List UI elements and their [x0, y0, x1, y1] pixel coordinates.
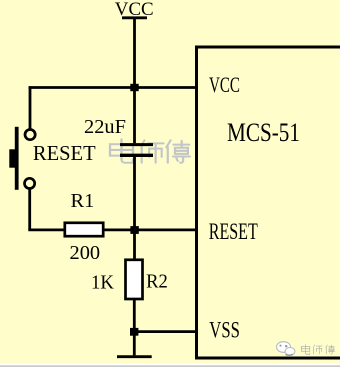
- svg-text:RESET: RESET: [209, 219, 258, 245]
- svg-text:22uF: 22uF: [84, 116, 126, 138]
- svg-text:VCC: VCC: [115, 0, 154, 20]
- svg-text:R2: R2: [146, 271, 168, 293]
- svg-text:VCC: VCC: [209, 74, 240, 98]
- svg-text:MCS-51: MCS-51: [227, 119, 300, 148]
- svg-text:R1: R1: [71, 190, 95, 212]
- svg-text:200: 200: [70, 242, 101, 264]
- svg-text:VSS: VSS: [209, 318, 240, 343]
- svg-text:1K: 1K: [91, 272, 114, 294]
- svg-text:RESET: RESET: [33, 141, 96, 166]
